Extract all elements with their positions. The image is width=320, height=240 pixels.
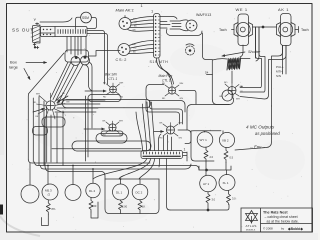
scan mark left edge [0, 205, 3, 215]
svg-text:GN: GN [179, 138, 183, 140]
S6 spokes [225, 83, 239, 98]
svg-text:CTL 1: CTL 1 [109, 77, 118, 81]
long trunk down right [235, 106, 272, 150]
horizontal strip TS2 [141, 151, 183, 159]
svg-text:Tach: Tach [219, 28, 227, 32]
connector J1 bottom dot [34, 47, 36, 49]
wire S6 right h1 [240, 87, 261, 89]
wires into TS2 top 7 [167, 135, 169, 151]
svg-text:◆Bobbi◆: ◆Bobbi◆ [287, 227, 303, 231]
svg-text:RD: RD [103, 135, 107, 137]
svg-text:SS OUT: SS OUT [12, 28, 34, 33]
connector J1 hatching [33, 26, 40, 43]
svg-text:WH: WH [179, 123, 183, 125]
R1 bracket [42, 215, 49, 226]
wire M2 tach stub [295, 27, 299, 33]
svg-text:WH: WH [36, 94, 40, 96]
S1 spokes [37, 93, 66, 119]
wire loop left vertical [191, 131, 214, 161]
rotary S4 hub [168, 87, 175, 94]
meter SSM [81, 12, 92, 23]
loop D [96, 134, 127, 144]
junction dots bus [47, 165, 121, 180]
S2 wire in arrow [96, 90, 106, 92]
wire strip down 1 [66, 37, 68, 53]
svg-text:WH: WH [120, 83, 124, 85]
resistor R8 [227, 191, 231, 205]
connector J1 SS OUT body [33, 25, 41, 43]
TS2 text row [143, 155, 181, 157]
box left trunk 3 [38, 97, 40, 166]
svg-text:Tach: Tach [301, 28, 309, 32]
wires M2 down 1 [282, 46, 284, 75]
loop B [63, 100, 151, 108]
svg-text:WH: WH [119, 121, 123, 123]
coil L1 [227, 58, 241, 70]
left margin smudge [0, 55, 4, 155]
wire M1-M2 [253, 26, 277, 28]
wire S6 right h2 [240, 91, 264, 93]
svg-text:© 2008: © 2008 [263, 227, 273, 231]
title block divider horizontal [261, 223, 313, 225]
svg-text:AY 1: AY 1 [203, 182, 210, 186]
P5 arc [186, 44, 194, 46]
vertical wire x88 [87, 98, 89, 157]
junction dot [262, 26, 264, 28]
box left trunk 4 [44, 101, 47, 166]
svg-text:GN: GN [119, 135, 123, 137]
arrow shutter [222, 52, 245, 56]
wire strip to rotary S2 [87, 31, 105, 85]
coil L1 second layer [228, 58, 240, 69]
S4 loop [146, 85, 185, 113]
wire M1 down [240, 45, 243, 57]
svg-text:SSM: SSM [82, 16, 89, 20]
wire TS2 to circles 3 [139, 159, 155, 180]
svg-text:AK 1: AK 1 [278, 7, 289, 12]
fan wire 3 [58, 66, 78, 104]
rotary S3 hub [109, 124, 116, 131]
connector P3 circle [118, 44, 130, 56]
motor M1 flange [234, 23, 253, 37]
svg-text:WH: WH [180, 83, 184, 85]
cable loop node A [71, 57, 80, 66]
wire loop to WY1 XB2 tops [187, 105, 229, 134]
S19 pin dots [155, 16, 157, 56]
bus 3 [41, 164, 192, 169]
P4 plug pins [189, 23, 194, 29]
title block frame [241, 208, 313, 232]
svg-text:Main Film: Main Film [159, 74, 173, 78]
wires into TS2 top 6 [163, 136, 165, 151]
trunk vertical from motor2 a [272, 46, 283, 107]
paper mottling [32, 44, 305, 222]
wire TS2 to circles 4 [158, 159, 161, 168]
svg-text:ATLAS: ATLAS [246, 224, 257, 228]
meter AY1 [200, 175, 217, 192]
svg-text:MODELS: MODELS [246, 230, 256, 232]
cable bundle box [65, 50, 89, 62]
wires M down 2 [256, 27, 259, 61]
svg-text:DL 2: DL 2 [89, 189, 96, 193]
connector P2 circle [119, 18, 131, 30]
resistor R3 [119, 200, 123, 214]
motor M2 rotor [279, 23, 293, 37]
left wire vertical x212 [212, 61, 229, 105]
lamp DS6 [132, 184, 148, 200]
wire P4 loop down [203, 33, 213, 60]
wire bottom right bus [170, 205, 229, 211]
svg-text:WA/FX13: WA/FX13 [196, 13, 211, 17]
S3 wire in arrow [95, 128, 105, 130]
svg-text:XL 1: XL 1 [223, 181, 229, 185]
logo hexagram [246, 211, 258, 221]
S3 spokes [106, 121, 119, 133]
motor M2 flange [277, 23, 296, 37]
svg-text:CS:2: CS:2 [116, 58, 128, 62]
wire S5 right loop [178, 130, 191, 144]
resistor R5 [204, 147, 208, 162]
svg-text:as positioned: as positioned [255, 131, 280, 136]
svg-text:XB 2: XB 2 [222, 139, 229, 143]
svg-text:S/N: S/N [276, 74, 281, 78]
svg-text:GN: GN [180, 98, 184, 100]
loop F [33, 127, 48, 136]
svg-text:220: 220 [92, 204, 97, 208]
junction dot y170 [206, 169, 208, 171]
strip TS1 left dots [43, 29, 51, 35]
S2 spokes [107, 83, 120, 95]
svg-text:CTL 1: CTL 1 [162, 79, 171, 83]
bus y149 [52, 148, 141, 150]
wire into S3 from left [84, 128, 95, 130]
S4 cross [169, 87, 175, 93]
wires M2 down 2 [285, 46, 287, 75]
cable loop node B [81, 56, 90, 65]
S3 cross [110, 124, 116, 130]
loop A [88, 95, 121, 102]
wire TS2 to circles 2 [119, 159, 151, 180]
motor M1 housing [238, 14, 249, 46]
trunk vertical from motor2 b [240, 46, 286, 100]
wire P3-strip 2 [130, 45, 154, 49]
strip TS1 left cell [41, 27, 56, 37]
svg-text:OR: OR [35, 116, 39, 118]
svg-text:large: large [9, 65, 19, 70]
junction dot bottom [207, 209, 209, 211]
svg-text:RD: RD [160, 138, 164, 140]
rotary S6 hub [228, 87, 236, 95]
meter XB2 [219, 132, 234, 147]
svg-text:DL 1: DL 1 [116, 191, 123, 195]
resistor R2 [89, 198, 93, 212]
wire strip down 5 [80, 37, 82, 55]
wire into S2 from left [85, 90, 96, 92]
box left trunk 2 [32, 98, 34, 162]
drops to bottom circles [30, 163, 140, 185]
motor M1 shaft [240, 27, 245, 32]
connector P4 plug circle [186, 20, 197, 31]
lamp DS5 [113, 184, 129, 200]
svg-text:WH: WH [133, 19, 137, 21]
svg-text:1K: 1K [142, 205, 145, 209]
vertical wire x85 [85, 96, 87, 161]
terminal strip S19 [154, 14, 161, 59]
svg-text:D4: D4 [205, 71, 209, 75]
wire strip down 4 [77, 37, 79, 56]
wire strip to rotary S2 b [87, 34, 108, 85]
wire P2-strip 1 [130, 17, 154, 21]
lamp DS2 [42, 184, 58, 200]
svg-text:NO: NO [224, 82, 228, 84]
U2 stub D4 [207, 74, 213, 76]
wire S19 to S4 [157, 59, 172, 85]
ribbon terminal strip TS1 [41, 27, 88, 37]
box outline left vertical [27, 94, 29, 161]
strip TS1 pins [58, 30, 86, 34]
SSM lead right [87, 18, 96, 29]
svg-text:Main AK:1: Main AK:1 [116, 8, 134, 13]
staircase wire 2 [150, 101, 183, 125]
wire connector top to right [40, 18, 72, 22]
S6 cross [229, 87, 235, 94]
S2 cross [110, 87, 115, 93]
wires S19 exits right [160, 22, 167, 29]
title block [241, 208, 313, 232]
wire R2 down [91, 202, 98, 218]
wire P2-strip 4 [130, 26, 154, 29]
S5 spokes [163, 123, 178, 137]
P2 top stub [124, 16, 126, 18]
wires into TS2 top 1 [136, 112, 143, 151]
arrow to box edge [24, 69, 30, 80]
svg-text:RD: RD [162, 98, 166, 100]
buses bottom [29, 160, 200, 170]
wire P2-strip 5 [127, 29, 154, 31]
loop C [101, 131, 123, 136]
resistor R4 [138, 200, 142, 214]
wire P3-strip 1 [129, 41, 154, 46]
wire strip down 3 [74, 37, 76, 57]
svg-text:-- Env --: -- Env -- [250, 145, 266, 150]
wires into TS2 top 4 [152, 102, 155, 151]
wire TS2 down right [167, 159, 171, 211]
cable loop node A dot [75, 56, 77, 58]
svg-text:PULL: PULL [276, 65, 284, 69]
svg-text:RD: RD [33, 102, 37, 104]
wires into TS2 top 8 [171, 137, 173, 151]
wires into TS2 top 5 [159, 134, 162, 151]
rotary S5 hub [167, 126, 175, 134]
bus 4 [45, 166, 159, 214]
coil leads [212, 59, 250, 61]
svg-text:1: 1 [184, 148, 186, 152]
fan wire 5 [51, 62, 69, 98]
wires into TS2 top 2 [143, 104, 147, 151]
connector P4 body [170, 20, 188, 31]
TS2 pins [144, 152, 180, 154]
wire P3-strip 3 [130, 49, 154, 52]
connector J1 pins left [31, 29, 33, 37]
fan wire 4 [61, 65, 83, 105]
connector J1 top pin [36, 23, 39, 25]
lamp DS1 [21, 185, 39, 203]
trunk vertical from motors 2 [259, 27, 265, 92]
svg-text:The Rats Nest: The Rats Nest [263, 211, 288, 215]
wire strip down 6 [85, 37, 87, 57]
S19 right ticks [158, 17, 160, 56]
wires into P4 [160, 17, 177, 25]
svg-text:WY 1: WY 1 [200, 138, 208, 142]
wire y170 [199, 162, 231, 175]
svg-text:0.5: 0.5 [230, 156, 234, 160]
svg-text:/2: /2 [48, 193, 51, 197]
svg-text:2.0: 2.0 [210, 155, 214, 159]
wires M down 1 [255, 27, 257, 58]
wire P3-strip 4 [128, 53, 154, 54]
rotary S2 hub [110, 86, 117, 93]
S1 cross [47, 102, 54, 110]
svg-text:GN: GN [120, 97, 124, 99]
fan wire 1 [53, 62, 71, 100]
svg-text:– cabling cheat sheet: – cabling cheat sheet [265, 215, 298, 219]
rotary S1 hub [46, 101, 55, 110]
motor M1 rotor [236, 23, 250, 37]
resistor R1 [46, 200, 50, 215]
wire P2-strip 2 [131, 20, 154, 23]
vertical x92 [89, 62, 93, 128]
motor M2 shaft [283, 27, 288, 32]
page edge shadow bottom-left [0, 216, 40, 236]
meter XL1 [219, 175, 235, 191]
loop D2 [72, 141, 151, 151]
title block divider vertical [260, 208, 262, 232]
S5 cross [167, 127, 174, 134]
wire S19 to S4 b [159, 59, 174, 85]
svg-text:WH: WH [236, 99, 240, 101]
connector P4 inner [172, 24, 181, 27]
wires into TS2 top 3 [147, 102, 151, 151]
wire strip down 2 [70, 37, 72, 55]
connector face P5 dashed [186, 46, 195, 55]
loop G top edge [105, 178, 159, 180]
meter WY1 [197, 132, 213, 148]
S5 wire left arrow [154, 131, 164, 133]
svg-text:3.0: 3.0 [212, 198, 216, 202]
svg-text:MTH: MTH [276, 70, 283, 74]
S4 spokes [165, 84, 179, 96]
connector circle next to S6 [222, 90, 233, 101]
cable loop node B dot [84, 56, 86, 58]
wire S6 loop bottom [229, 98, 234, 105]
wire TS2 to circles 1 [93, 159, 147, 180]
wire P2-strip 3 [131, 24, 154, 26]
P2 pins [122, 21, 123, 22]
svg-text:Y: Y [34, 17, 37, 22]
svg-text:GN: GN [66, 102, 70, 104]
box outline top [89, 51, 121, 57]
svg-text:WE 1: WE 1 [236, 7, 248, 12]
loop E [42, 117, 65, 127]
svg-text:3.0: 3.0 [232, 197, 236, 201]
lamp DS4 [86, 183, 100, 197]
S1 wire arrows [57, 96, 68, 103]
trunk vertical from motors 1 [256, 27, 262, 88]
lamp DS3 [65, 185, 81, 201]
fan wire 2 [56, 65, 75, 101]
box outline diagonal [29, 53, 64, 94]
svg-text:by: by [281, 227, 285, 231]
SSM lead left [76, 17, 81, 29]
P4 loop wire [166, 29, 202, 36]
S1 bottom wires [45, 111, 63, 166]
svg-text:DC 2: DC 2 [136, 191, 143, 195]
label Tach left [232, 29, 235, 31]
resistor R7 [206, 192, 210, 210]
resistor R6 [224, 148, 228, 163]
wire coil bottom to S6 [231, 71, 233, 83]
motor M2 housing [281, 14, 292, 46]
svg-text:RD: RD [103, 97, 107, 99]
S4 wire right [179, 91, 196, 105]
svg-text:4 MC Outputs: 4 MC Outputs [246, 125, 275, 130]
P3 pins [121, 47, 122, 48]
wire strip exits right [183, 152, 187, 161]
rotary1 right bundle [55, 100, 105, 112]
svg-text:Box S/N: Box S/N [105, 73, 117, 77]
wire bundle right S [85, 65, 92, 92]
svg-text:2.00: 2.00 [122, 205, 128, 209]
arrow to box [26, 62, 47, 64]
P5 center pin [189, 50, 191, 52]
svg-text:as at the below date.: as at the below date. [267, 220, 299, 224]
connector J1 bottom pin [33, 43, 39, 49]
staircase wire 1 [146, 101, 180, 125]
